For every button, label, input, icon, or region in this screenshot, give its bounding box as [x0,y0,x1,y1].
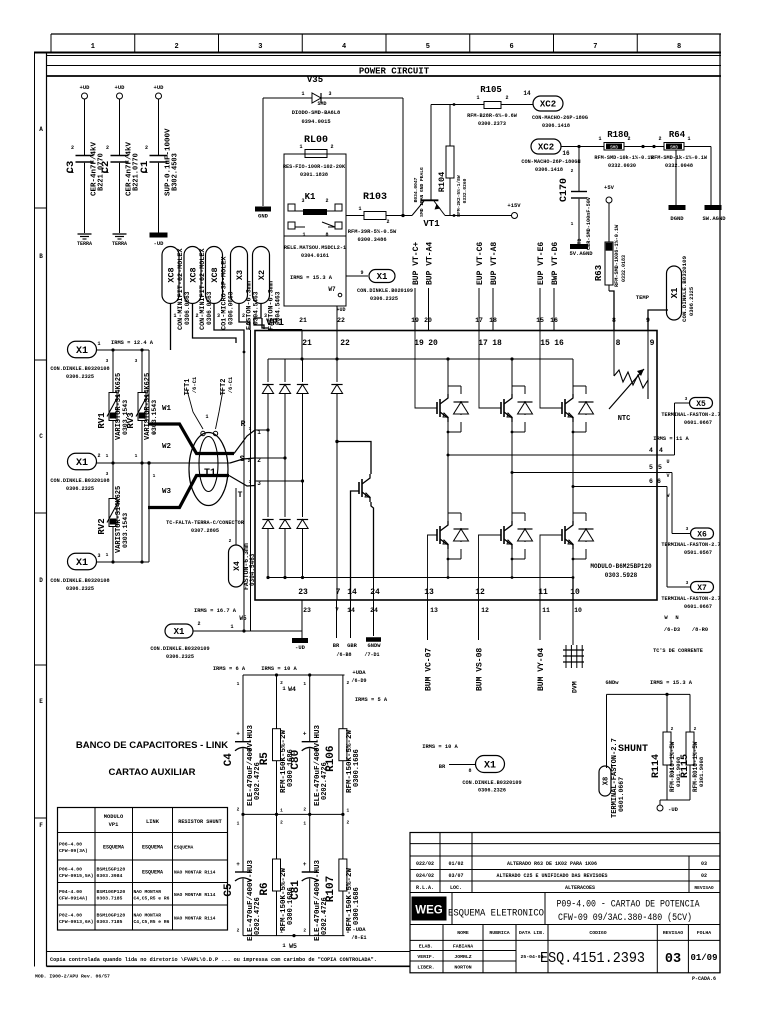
transistor IGBT bottom 3 [561,529,563,541]
svg-text:X1: X1 [76,558,88,569]
capacitor C80 [309,675,311,742]
svg-text:X6: X6 [697,530,707,539]
wire lower bus left [268,577,380,579]
svg-text:8: 8 [325,232,328,238]
svg-text:/7-D1: /7-D1 [364,652,379,658]
svg-text:3: 3 [328,91,331,97]
svg-text:8: 8 [612,317,616,324]
svg-text:X5: X5 [696,400,706,409]
svg-text:3: 3 [686,526,689,532]
svg-text:F: F [39,822,43,829]
svg-text:1: 1 [205,414,208,420]
svg-text:VP1: VP1 [266,318,284,329]
svg-text:IRMS = 10 A: IRMS = 10 A [422,744,458,750]
svg-text:0303.7185: 0303.7185 [97,919,123,925]
wire shunt left [606,694,608,768]
svg-text:ESQUEMA ELETRONICO: ESQUEMA ELETRONICO [448,909,544,920]
capacitor stack pin10 [565,645,567,668]
svg-text:LOC.: LOC. [450,885,462,891]
svg-text:P04-4.00: P04-4.00 [59,889,82,895]
wire V35 top [263,97,312,99]
svg-text:D: D [39,577,43,584]
svg-text:NAO MONTAR R114: NAO MONTAR R114 [174,892,216,898]
svg-text:ALTERADO R63 DE 1K02 PARA 1K06: ALTERADO R63 DE 1K02 PARA 1K06 [507,861,597,867]
svg-text:0332.0260: 0332.0260 [462,178,468,203]
wire bottom igbt 1 collector [447,455,449,521]
wire V down to X6 [671,473,673,534]
svg-text:CON-MACHO-26P-180G: CON-MACHO-26P-180G [532,115,588,121]
wire pin11 down [539,600,541,640]
wire top igbt 1 emitter [447,422,449,455]
svg-text:CON.DINKLE.B0320108: CON.DINKLE.B0320108 [50,478,109,484]
svg-text:IRMS = 5 A: IRMS = 5 A [355,697,388,703]
wire gate link top 1 [415,331,437,409]
svg-text:CON.DINKLE.B0320109: CON.DINKLE.B0320109 [681,255,688,322]
svg-text:2: 2 [627,136,630,142]
diode IGBT bottom 1 [460,513,462,521]
svg-text:3: 3 [685,396,688,402]
svg-text:6: 6 [649,478,653,485]
wire W7 down to pin22 [336,306,338,331]
svg-text:7: 7 [593,43,597,51]
capacitor C4 [242,675,244,742]
svg-text:2: 2 [242,313,245,319]
svg-text:1: 1 [476,95,479,101]
ruler tick [134,34,136,53]
svg-text:X1: X1 [670,287,680,298]
connector X7 [691,582,714,593]
svg-text:2: 2 [280,680,283,686]
svg-text:TERMINAL-FASTON-2.7: TERMINAL-FASTON-2.7 [661,542,720,548]
wire X3 down [239,304,250,331]
svg-text:2: 2 [195,313,198,319]
wire rect col2 down [284,394,286,458]
connector XC8 at x170 [162,247,179,304]
svg-text:+: + [236,731,240,738]
svg-text:BSM10GP120: BSM10GP120 [97,913,126,919]
ruler band box [50,34,52,53]
svg-text:BUP VT-A8: BUP VT-A8 [490,242,499,285]
wire rect col3 down [302,394,304,481]
zone tick [34,817,47,819]
transistor IGBT top 3 [561,402,563,414]
ruler tick [636,34,638,53]
wire K1 to X1 [346,275,368,277]
svg-text:022/02: 022/02 [416,861,434,867]
svg-text:XC2: XC2 [538,143,554,153]
resistor R114 [663,732,671,765]
zone tick [34,664,47,666]
svg-text:LIBER.: LIBER. [417,965,434,971]
wire V35 right down [402,98,404,216]
svg-text:GBR: GBR [347,643,357,649]
svg-text:SMD IRAN GND PEALG: SMD IRAN GND PEALG [419,167,425,217]
wire X2 down [254,304,264,330]
connector XC2 top [533,96,563,111]
svg-text:2: 2 [347,819,350,825]
svg-text:3: 3 [217,313,220,319]
svg-text:15: 15 [536,317,544,324]
capacitor C5 [242,814,244,872]
svg-text:A: A [39,126,43,133]
connector XC8 at x192 [184,247,201,304]
svg-text:TERMINAL-FASTON-2.7: TERMINAL-FASTON-2.7 [661,412,720,418]
svg-text:Copia controlada quando lida n: Copia controlada quando lida no diretori… [50,957,377,963]
node R output [234,430,255,454]
svg-text:IRMS = 15.3 A: IRMS = 15.3 A [290,275,333,281]
wire C3 bottom [84,163,86,233]
svg-text:CON.DINKLE.B020109: CON.DINKLE.B020109 [357,288,413,294]
wire W2 thin [96,462,230,464]
svg-text:1: 1 [282,685,286,692]
wire pin12 down [478,600,480,640]
svg-text:X4: X4 [233,561,242,571]
svg-text:0332.0048: 0332.0048 [665,163,693,169]
wire emitter bus 2 [512,472,657,474]
transformer T1 [189,433,228,506]
svg-text:R5: R5 [259,752,271,766]
wire pin13 down [427,600,429,640]
wire brake gate [351,491,360,600]
wire bottom igbt 3 emitter [572,549,574,578]
svg-text:1: 1 [106,169,109,175]
wire K1 to R103 to VT1 [346,215,364,217]
wire gate link bottom 2 [479,535,502,600]
wire R180 to R64 [624,146,664,148]
title block hline code row [410,939,720,941]
wire pin24 col [373,578,375,601]
svg-text:1: 1 [358,206,361,212]
svg-text:0303.5928: 0303.5928 [605,572,638,579]
svg-text:2: 2 [347,680,350,686]
title block hline names [410,950,516,952]
border frame right [719,34,721,973]
svg-text:X2: X2 [257,270,267,280]
svg-text:+: + [303,731,307,738]
svg-text:C4: C4 [223,753,235,767]
power -UD bar bottom [292,638,308,643]
svg-text:-UD: -UD [154,240,165,247]
svg-text:0303.1543: 0303.1543 [122,513,129,548]
wire RV3 lower [141,463,143,562]
wire VT1 collector from R103 [401,214,404,217]
wire -UD stub [301,631,303,638]
zone tick [34,359,47,361]
resistor R115 [686,732,694,765]
svg-text:R107: R107 [325,876,337,902]
svg-text:MODULO: MODULO [104,814,124,820]
wire link down left b [250,352,252,631]
svg-text:RV2: RV2 [97,518,107,534]
connector X4 [229,545,244,587]
connector XC2 second [531,139,561,154]
svg-text:/6-D9: /6-D9 [351,678,366,684]
svg-text:CON.DINKLE.B0320109: CON.DINKLE.B0320109 [150,646,209,652]
capacitor C2 [111,155,129,157]
resistor R6 [276,814,278,859]
diode IGBT top 2 [524,386,526,394]
transistor IGBT bottom 2 [500,529,502,541]
svg-text:2: 2 [694,726,697,732]
svg-text:20: 20 [424,317,432,324]
table banco hline [58,832,228,834]
svg-text:0306.1418: 0306.1418 [535,167,563,173]
svg-text:/8-R0: /8-R0 [692,627,708,633]
svg-text:19: 19 [411,317,419,324]
svg-text:0300.2373: 0300.2373 [478,121,506,127]
svg-text:2: 2 [197,621,200,627]
svg-text:-UDA: -UDA [352,926,366,933]
ruler tick [553,34,555,53]
svg-text:0306.2325: 0306.2325 [66,486,94,492]
svg-text:FABIANA: FABIANA [453,944,473,950]
svg-text:LINK: LINK [146,819,160,825]
svg-text:/6-B8: /6-B8 [336,652,351,658]
svg-text:03: 03 [665,952,681,967]
svg-text:3: 3 [135,358,138,364]
svg-text:1: 1 [153,430,156,436]
svg-text:02: 02 [701,873,707,879]
svg-text:8: 8 [616,339,621,348]
svg-text:21: 21 [302,339,312,348]
svg-text:DGND: DGND [670,215,684,222]
wire C3 top [84,99,86,155]
svg-text:2: 2 [671,726,674,732]
svg-text:2: 2 [145,145,148,151]
svg-text:R104: R104 [437,172,447,192]
svg-text:V: V [666,473,669,479]
relay K1 contact [288,222,295,229]
diode IGBT bottom 3 [585,513,587,521]
power circuit band line2 [47,65,722,67]
wire BR to X1 [449,764,475,766]
wire top igbt 3 emitter [572,422,574,487]
svg-text:ESQUEMA: ESQUEMA [142,844,163,850]
svg-text:6: 6 [510,43,514,51]
svg-text:BSM15GP120: BSM15GP120 [97,866,126,872]
wire R105 right to XC2 [501,104,533,106]
svg-text:1: 1 [598,136,601,142]
svg-text:BUM VY-04: BUM VY-04 [537,648,546,691]
ground DGND [669,205,686,210]
wire bottom igbt 1 emitter [447,549,449,578]
capacitor C170 [578,147,580,192]
svg-text:2: 2 [237,806,240,812]
svg-text:0332.0183: 0332.0183 [621,255,627,282]
svg-text:2: 2 [571,168,574,174]
svg-text:TC-FALTA-TERRA-C/CONECTOR: TC-FALTA-TERRA-C/CONECTOR [166,520,245,526]
svg-text:TERRA: TERRA [112,241,127,247]
title block hline [410,843,720,845]
svg-text:NAO MONTAR R114: NAO MONTAR R114 [174,869,216,875]
title block vline cols [442,925,444,973]
capacitor C81 [309,814,311,872]
svg-text:-UD: -UD [668,806,679,813]
svg-text:RL00: RL00 [304,135,328,146]
svg-text:18: 18 [492,339,502,348]
svg-text:5: 5 [658,464,662,471]
wire R105 node [431,104,484,106]
wire shunt box top [607,693,691,695]
svg-text:R: R [241,420,246,429]
connector X1 -UD [165,624,193,638]
rectifier diode bottom 1 [267,430,269,517]
wire XC8-2 down [193,304,237,344]
svg-text:0306.2325: 0306.2325 [66,586,94,592]
svg-text:K1: K1 [305,192,316,202]
wire top igbt 2 collector [511,359,513,394]
ruler tick [469,34,471,53]
diode brake col [336,359,338,382]
svg-text:0301.9008: 0301.9008 [698,756,705,787]
svg-text:REVISAO: REVISAO [694,885,714,891]
connector X6 [691,528,714,539]
border frame top thick [34,52,721,54]
wire module top bus [268,358,573,360]
svg-text:BUP VT-C+: BUP VT-C+ [412,242,421,285]
zone tick [34,512,47,514]
svg-text:C5: C5 [223,883,235,897]
wire C2 bottom [119,163,121,233]
rectifier diode top 2 [284,359,286,382]
svg-text:19: 19 [414,339,424,348]
svg-text:TEMP: TEMP [636,294,650,301]
relay K1 box [284,154,346,306]
svg-text:C80: C80 [290,750,302,770]
svg-text:0303.7185: 0303.7185 [97,895,123,901]
wire VT1 base up [430,105,432,201]
svg-text:IRMS = 10 A: IRMS = 10 A [261,666,297,672]
svg-text:1: 1 [173,313,176,319]
svg-text:ELAB.: ELAB. [419,944,433,950]
svg-text:4: 4 [649,447,653,454]
svg-text:03/07: 03/07 [448,873,463,879]
wire lower bus right [380,577,573,579]
ground 5V.AGND under C170 [570,244,588,249]
svg-text:RFM-SMD-10k-1%-0.1W: RFM-SMD-10k-1%-0.1W [594,155,654,161]
svg-text:1: 1 [71,169,74,175]
ground TERRA under C2 [113,233,127,235]
title block outline [410,833,720,973]
svg-text:22: 22 [340,339,350,348]
svg-text:01/02: 01/02 [448,861,463,867]
svg-text:N: N [675,614,678,621]
wire W1 thick [148,424,234,454]
svg-text:0332.0030: 0332.0030 [608,163,636,169]
svg-text:EUP VT-E6: EUP VT-E6 [537,242,546,285]
title block hline logo bottom [410,924,720,926]
wire pin23 down [301,600,303,631]
svg-text:CFW-0915,5A): CFW-0915,5A) [59,873,94,879]
svg-text:0300.1686: 0300.1686 [353,749,361,787]
svg-text:XC8: XC8 [210,267,220,282]
svg-text:X1: X1 [174,627,185,637]
wire gate link top 2 [479,331,501,409]
svg-text:0301.1838: 0301.1838 [300,172,328,178]
wire pin24 down [373,600,375,636]
varistor RV2 [112,463,114,499]
svg-text:SW.AGND: SW.AGND [702,215,726,222]
wire gate EUP VT-E6 [539,288,541,331]
title block hline [410,892,720,894]
node T output [229,476,255,487]
svg-text:2: 2 [325,198,328,204]
wire output 6 [657,486,667,488]
svg-text:1: 1 [97,341,100,347]
svg-text:2: 2 [106,145,109,151]
svg-text:2: 2 [505,95,508,101]
table banco vline [172,808,174,931]
svg-text:2: 2 [658,136,661,142]
svg-text:3: 3 [106,471,109,477]
svg-text:X7: X7 [697,584,707,593]
svg-text:GNDw: GNDw [606,680,620,686]
wire top igbt 3 collector [572,359,574,394]
svg-text:+: + [236,861,240,868]
connector X1 temp [667,266,682,320]
wire input R [96,349,149,351]
wire top igbt 1 collector [447,359,449,394]
svg-text:IRMS = 6 A: IRMS = 6 A [213,666,246,672]
svg-text:ALTERACOES: ALTERACOES [565,885,595,891]
svg-text:XC8: XC8 [188,267,198,282]
svg-text:7: 7 [335,607,339,614]
svg-text:13: 13 [430,607,438,614]
svg-text:3: 3 [301,198,304,204]
transistor IGBT top 1 [436,402,438,414]
power circuit band line1 [47,55,722,57]
title block hline [410,855,720,857]
svg-text:+: + [303,861,307,868]
wire X1 -UD [193,630,302,632]
svg-text:RESISTOR SHUNT: RESISTOR SHUNT [178,819,222,825]
svg-text:/6-D3: /6-D3 [664,627,680,633]
thermistor NTC [613,331,615,377]
svg-text:2: 2 [280,819,283,825]
wire XC2-2 to R180 [561,146,604,148]
connector XC8 at x214 [206,247,223,304]
svg-text:0304.0161: 0304.0161 [301,253,329,259]
connector X1 input pin 2 [68,453,97,470]
ruler tick [218,34,220,53]
title block vline logo [451,893,453,925]
svg-text:T1: T1 [204,468,216,479]
svg-text:MODULO-B6M25BP120: MODULO-B6M25BP120 [590,563,652,570]
transistor IGBT bottom 1 [436,529,438,541]
svg-text:GND: GND [258,213,269,220]
svg-text:22: 22 [337,317,345,324]
svg-text:1: 1 [145,169,148,175]
wire junction to DGND [675,151,677,206]
svg-text:9: 9 [360,270,363,276]
connector X1 relay [369,270,395,283]
svg-text:XC8: XC8 [166,267,176,282]
wire input R riser [148,350,150,422]
svg-text:11: 11 [538,588,548,597]
svg-text:BANCO DE CAPACITORES - LINK: BANCO DE CAPACITORES - LINK [76,740,228,751]
wire pin10 down [572,600,574,645]
svg-text:NAO MONTAR: NAO MONTAR [134,889,162,895]
transistor IGBT top 2 [500,402,502,414]
svg-text:0601.0667: 0601.0667 [618,777,625,812]
svg-text:X8: X8 [602,777,610,785]
svg-text:C170: C170 [559,178,570,202]
svg-text:POWER CIRCUIT: POWER CIRCUIT [359,67,430,77]
svg-text:JOMRLZ: JOMRLZ [454,954,471,960]
svg-text:1: 1 [303,681,306,687]
wire capbank mid bus [243,813,345,815]
svg-text:BUM VS-08: BUM VS-08 [476,648,485,691]
